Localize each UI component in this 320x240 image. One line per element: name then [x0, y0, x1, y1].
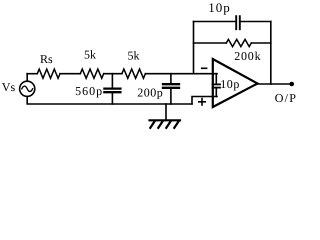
svg-text:200k: 200k [234, 49, 261, 63]
resistor R2 5k [122, 69, 145, 78]
svg-text:Vs: Vs [2, 80, 16, 94]
capacitor C1 560p [104, 74, 120, 104]
wire feedback right vertical [270, 22, 272, 85]
capacitor C2 200p [163, 74, 179, 104]
capacitor C4 10p feedback [236, 16, 240, 29]
wire Rs to R1 [60, 73, 80, 75]
wire feedback left vertical [193, 22, 195, 74]
wire top feedback right segment [241, 21, 271, 23]
svg-text:Rs: Rs [40, 52, 53, 66]
svg-text:10p: 10p [220, 77, 240, 91]
op-amp U1 [213, 59, 258, 107]
svg-text:5k: 5k [128, 48, 140, 62]
wire top stub of source [26, 74, 28, 82]
resistor R3 200k [226, 39, 251, 46]
wire 200k right segment [251, 42, 270, 44]
minus sign of op-amp [202, 67, 207, 69]
node output dot [289, 82, 294, 87]
wire top feedback left segment [194, 21, 236, 23]
svg-text:O/P: O/P [275, 91, 297, 105]
wire R1 to R2 with junction to C1 [104, 73, 122, 75]
wire output [258, 83, 294, 85]
wire 200k left segment [194, 42, 227, 44]
plus sign of op-amp [199, 99, 205, 105]
svg-text:10p: 10p [208, 0, 231, 15]
wire bottom rail [27, 96, 192, 104]
capacitor C3 10p between inputs [213, 74, 221, 97]
ground [150, 104, 181, 128]
svg-text:200p: 200p [137, 85, 163, 99]
voltage source Vs [20, 81, 35, 96]
wire from source to Rs [27, 73, 37, 75]
resistor R1 5k [80, 69, 103, 78]
svg-text:560p: 560p [75, 84, 103, 98]
resistor Rs [37, 69, 60, 78]
wire to non-inverting input [192, 97, 217, 105]
wire R2 to op-amp inverting input [145, 73, 217, 75]
svg-text:5k: 5k [84, 48, 96, 62]
